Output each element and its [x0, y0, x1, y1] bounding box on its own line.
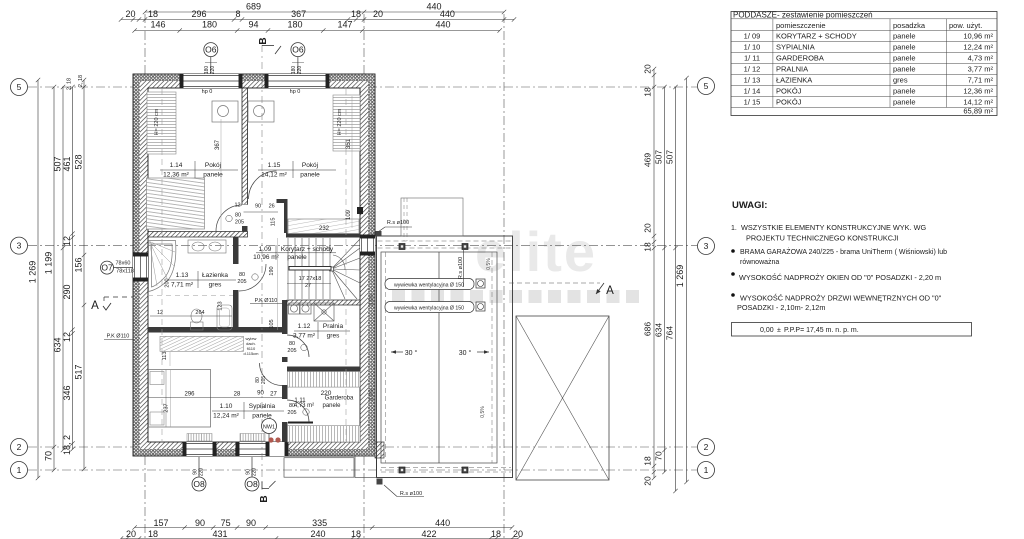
svg-text:528: 528	[74, 154, 84, 169]
bed room 1.14	[147, 178, 205, 229]
svg-text:109: 109	[346, 209, 352, 220]
door arc 1.15	[249, 171, 277, 199]
svg-text:GARDEROBA: GARDEROBA	[776, 53, 824, 62]
axis circle 1 left	[11, 462, 28, 479]
svg-text:12,36 m²: 12,36 m²	[163, 172, 189, 179]
svg-text:1/ 15: 1/ 15	[744, 97, 761, 106]
svg-text:O7: O7	[101, 263, 113, 273]
door arc sypialnia	[260, 363, 283, 386]
svg-text:POSADZKI - 2,10m- 2,12m: POSADZKI - 2,10m- 2,12m	[737, 303, 825, 312]
door arc bathroom	[239, 264, 266, 291]
svg-text:R.s ø100: R.s ø100	[458, 257, 464, 279]
window marker O8 no1	[192, 477, 206, 491]
window O6 room 1.14	[183, 74, 239, 88]
note 4	[731, 293, 735, 297]
vent callout 1	[385, 279, 474, 290]
bathroom shower tray	[217, 305, 232, 330]
svg-text:80: 80	[235, 213, 241, 219]
svg-text:30 °: 30 °	[405, 349, 418, 357]
svg-text:18: 18	[148, 529, 158, 539]
svg-text:634: 634	[654, 323, 664, 337]
svg-text:461: 461	[62, 156, 72, 171]
svg-text:panele: panele	[252, 413, 272, 420]
svg-text:1.09: 1.09	[259, 246, 272, 253]
svg-text:240: 240	[310, 529, 325, 539]
door marker NW1	[262, 419, 277, 434]
svg-text:20: 20	[125, 9, 135, 19]
svg-text:205: 205	[237, 279, 246, 285]
closet room 1.15	[333, 95, 360, 151]
svg-text:764: 764	[665, 326, 675, 340]
svg-text:gres: gres	[209, 282, 222, 289]
svg-text:4,73 m²: 4,73 m²	[294, 403, 314, 409]
bathroom corner bathtub	[149, 241, 176, 292]
svg-text:156: 156	[74, 257, 84, 272]
garderoba rack bottom	[288, 426, 361, 442]
svg-text:78x118: 78x118	[116, 269, 134, 275]
bathroom ceiling dash	[148, 295, 233, 297]
door opening 1.14 in dividing wall	[242, 205, 248, 232]
svg-text:507: 507	[654, 150, 664, 164]
stairs handrail	[289, 267, 331, 271]
svg-text:27: 27	[270, 392, 277, 398]
exterior wall outline	[133, 74, 375, 456]
svg-text:12: 12	[234, 203, 240, 209]
axis circle 2 right	[698, 439, 715, 456]
svg-text:gres: gres	[327, 333, 340, 340]
desk room 1.15	[248, 101, 274, 122]
svg-text:146: 146	[150, 20, 165, 30]
svg-text:3,77 m²: 3,77 m²	[968, 64, 994, 73]
svg-text:7,71 m²: 7,71 m²	[968, 75, 994, 84]
svg-text:14,12 m²: 14,12 m²	[963, 97, 993, 106]
svg-text:80: 80	[239, 272, 245, 278]
dim chain right total	[684, 76, 688, 484]
svg-text:WSZYSTKIE ELEMENTY KONSTRUKCYJ: WSZYSTKIE ELEMENTY KONSTRUKCYJNE WYK. WG	[741, 223, 926, 232]
svg-text:0,5%: 0,5%	[486, 258, 492, 270]
svg-text:232: 232	[319, 226, 330, 232]
window marker O8 no2	[245, 477, 259, 491]
exterior wall right	[368, 74, 375, 456]
svg-text:20: 20	[513, 529, 523, 539]
garage roof ridge	[438, 252, 440, 463]
svg-text:220: 220	[252, 468, 258, 477]
svg-text:POKÓJ: POKÓJ	[776, 86, 802, 95]
interior wall bathroom right	[233, 237, 239, 327]
svg-text:237: 237	[164, 403, 170, 412]
svg-text:pomieszczenie: pomieszczenie	[776, 21, 826, 30]
svg-text:18: 18	[643, 87, 653, 97]
svg-text:689: 689	[246, 2, 261, 12]
washer dryer pralnia	[289, 303, 312, 314]
door opening bathroom	[233, 264, 240, 290]
dim chain left inner	[82, 78, 86, 471]
svg-text:1/ 11: 1/ 11	[744, 53, 760, 62]
svg-text:17 27x18: 17 27x18	[299, 276, 322, 282]
interior wall pralnia top	[287, 300, 360, 305]
svg-text:panele: panele	[287, 254, 307, 261]
svg-text:440: 440	[435, 518, 450, 528]
axis circle 3 right	[698, 238, 715, 255]
dim chain top row 1	[143, 10, 506, 14]
axis circle 1 right	[698, 462, 715, 479]
svg-text:WYSOKOŚĆ NADPROŻY OKIEN OD "0": WYSOKOŚĆ NADPROŻY OKIEN OD "0" POSADZKI …	[739, 273, 941, 282]
svg-text:Sypialnia: Sypialnia	[249, 403, 276, 410]
svg-text:367: 367	[291, 9, 306, 19]
svg-text:1: 1	[17, 465, 22, 475]
svg-text:440: 440	[440, 9, 455, 19]
svg-text:264: 264	[195, 310, 204, 316]
svg-text:113: 113	[162, 352, 168, 361]
svg-text:P.P.P= 17,45 m. n. p. m.: P.P.P= 17,45 m. n. p. m.	[784, 327, 859, 334]
svg-text:18: 18	[491, 529, 501, 539]
dim chain top row 2	[119, 17, 516, 21]
svg-text:12,24 m²: 12,24 m²	[963, 42, 993, 51]
svg-text:panele: panele	[203, 172, 223, 179]
svg-text:20: 20	[643, 223, 653, 233]
svg-text:5: 5	[17, 82, 22, 92]
bed sypialnia	[149, 370, 211, 428]
svg-text:296: 296	[184, 392, 195, 398]
svg-text:296: 296	[191, 9, 206, 19]
window O6 room 1.15	[268, 74, 326, 88]
sypialnia dims row	[148, 397, 282, 399]
garage hidden beam dashes top	[378, 240, 512, 242]
svg-text:335: 335	[312, 518, 327, 528]
svg-text:12: 12	[62, 236, 72, 246]
svg-text:507: 507	[53, 156, 63, 171]
svg-text:12: 12	[62, 332, 72, 342]
svg-text:1/ 10: 1/ 10	[744, 42, 761, 51]
axis line 1 horizontal	[28, 469, 697, 471]
svg-text:3: 3	[17, 241, 22, 251]
axis circle 5 left	[11, 79, 28, 96]
svg-text:351: 351	[346, 138, 352, 149]
stairs landing line	[287, 283, 331, 285]
svg-text:panele: panele	[893, 53, 916, 62]
section line B-B	[261, 45, 263, 490]
dim 190 corridor	[277, 238, 279, 330]
axis circle 5 right	[698, 78, 715, 95]
svg-text:Pokój: Pokój	[302, 162, 318, 169]
interior wall sypialnia / corridor+garderoba vertical	[282, 300, 288, 442]
svg-text:431: 431	[212, 529, 227, 539]
corridor jog wall top	[277, 199, 288, 203]
window jamb blocks	[180, 74, 184, 88]
dim chain right 507/764	[673, 85, 677, 493]
svg-text:440: 440	[435, 20, 450, 30]
door opening garderoba	[282, 399, 289, 422]
svg-text:26: 26	[269, 204, 275, 210]
vent callout 2	[385, 302, 474, 313]
svg-text:3,77 m²: 3,77 m²	[293, 333, 316, 340]
dim chain bottom row 2	[119, 536, 520, 539]
svg-text:panele: panele	[893, 31, 916, 40]
door arc pralnia	[287, 335, 309, 357]
svg-text:2: 2	[17, 442, 22, 452]
door knobs	[268, 437, 273, 442]
svg-text:3: 3	[704, 241, 709, 251]
closet room 1.14	[147, 92, 176, 154]
svg-text:1/ 12: 1/ 12	[744, 64, 761, 73]
svg-text:30 °: 30 °	[459, 349, 472, 357]
closet sypialnia	[160, 336, 244, 351]
svg-text:ŁAZIENKA: ŁAZIENKA	[776, 75, 812, 84]
svg-text:18: 18	[643, 456, 653, 466]
svg-text:1: 1	[704, 465, 709, 475]
svg-text:P.K Ø110: P.K Ø110	[255, 298, 278, 304]
svg-text:BRAMA GARAŻOWA 240/225 - brama: BRAMA GARAŻOWA 240/225 - brama UniTherm …	[740, 247, 947, 256]
door opening pralnia	[282, 334, 289, 357]
dim chain top row 3	[132, 28, 502, 32]
stairs walk arc	[333, 255, 345, 270]
garderoba door leaf	[288, 422, 313, 424]
dim chain left 1199	[52, 85, 56, 472]
bathroom toilet	[191, 322, 204, 330]
svg-text:O8: O8	[193, 479, 205, 489]
svg-text:20: 20	[373, 9, 383, 19]
svg-text:70: 70	[44, 451, 54, 461]
svg-text:75: 75	[221, 518, 231, 528]
level box	[732, 323, 972, 337]
svg-text:190: 190	[269, 266, 275, 275]
svg-text:pow. użyt.: pow. użyt.	[949, 21, 982, 30]
window marker O7	[101, 261, 114, 274]
svg-text:205: 205	[287, 348, 296, 354]
dim chain left 1269	[36, 78, 40, 480]
svg-text:wywiewka wentylacyjna Ø 150: wywiewka wentylacyjna Ø 150	[394, 306, 464, 312]
svg-text:4,73 m²: 4,73 m²	[968, 53, 994, 62]
svg-text:18: 18	[148, 9, 158, 19]
bottom right wall stub	[375, 442, 384, 458]
radiator comb window O8 no2	[240, 434, 265, 442]
svg-text:panele: panele	[893, 64, 916, 73]
bed room 1.15	[288, 219, 359, 234]
svg-text:1.15: 1.15	[268, 162, 281, 169]
axis line vertical left wall	[144, 14, 146, 539]
axis line vertical garage right	[503, 14, 505, 539]
svg-text:0,00: 0,00	[760, 327, 774, 334]
svg-text:180: 180	[287, 20, 302, 30]
svg-text:80: 80	[289, 403, 295, 409]
svg-text:Garderoba: Garderoba	[325, 396, 354, 402]
dim chain right 507/634/70	[662, 85, 666, 474]
stairs treads	[288, 238, 330, 299]
interior wall 1.15 / stairwell	[286, 233, 360, 238]
garage vent squares	[399, 244, 468, 474]
radiator comb window O8 no1	[187, 434, 212, 442]
svg-text:220: 220	[199, 468, 205, 477]
svg-text:posadzka: posadzka	[893, 21, 926, 30]
interior wall room 1.14 / bathroom	[148, 232, 248, 238]
door opening sypialnia	[282, 362, 289, 385]
shower pralnia	[314, 303, 334, 321]
door arc 1.14	[216, 205, 242, 231]
svg-text:90: 90	[255, 204, 261, 210]
svg-text:10,96 m²: 10,96 m²	[963, 31, 993, 40]
svg-text:1.14: 1.14	[170, 162, 183, 169]
svg-text:686: 686	[643, 322, 653, 336]
svg-text:346: 346	[62, 385, 72, 400]
svg-text:1.10: 1.10	[220, 403, 233, 410]
svg-text:panele: panele	[893, 86, 916, 95]
svg-text:90: 90	[246, 518, 256, 528]
room table	[731, 12, 997, 116]
svg-text:94: 94	[248, 20, 258, 30]
svg-text:10,96 m²: 10,96 m²	[253, 254, 279, 261]
svg-text:517: 517	[74, 364, 84, 379]
svg-text:80: 80	[289, 341, 295, 347]
svg-text:SYPIALNIA: SYPIALNIA	[776, 42, 815, 51]
note 2	[731, 249, 735, 253]
svg-text:R.s ø100: R.s ø100	[387, 220, 409, 226]
svg-text:d.115cm: d.115cm	[243, 351, 259, 356]
svg-text:gres: gres	[893, 75, 908, 84]
axis line vertical right wall	[363, 14, 365, 539]
svg-text:WYSOKOŚĆ NADPROŻY DRZWI WEWNĘT: WYSOKOŚĆ NADPROŻY DRZWI WEWNĘTRZNYCH OD …	[740, 294, 942, 303]
svg-text:90: 90	[195, 518, 205, 528]
garderoba rack top	[288, 372, 361, 388]
svg-text:1 199: 1 199	[44, 252, 54, 275]
svg-text:hp 0: hp 0	[202, 89, 213, 95]
svg-text:18: 18	[351, 529, 361, 539]
svg-text:12,36 m²: 12,36 m²	[963, 86, 993, 95]
svg-text:105: 105	[269, 319, 275, 328]
svg-text:PROJEKTU TECHNICZNEGO KONSTRUK: PROJEKTU TECHNICZNEGO KONSTRUKCJI	[746, 234, 899, 243]
porch roof outline above garage	[401, 198, 463, 236]
window O8 sypialnia 1	[186, 442, 213, 456]
svg-text:147: 147	[337, 20, 352, 30]
svg-text:UWAGI:: UWAGI:	[732, 200, 767, 211]
svg-text:Pralnia: Pralnia	[323, 323, 344, 330]
axis circle 2 left	[11, 439, 28, 456]
terrace crossed rectangle	[516, 316, 609, 480]
svg-text:PODDASZE- zestawienie pomieszc: PODDASZE- zestawienie pomieszczeń	[733, 10, 873, 19]
svg-text:NW1: NW1	[263, 425, 275, 431]
svg-text:wywiewka wentylacyjna Ø 150: wywiewka wentylacyjna Ø 150	[394, 283, 464, 289]
garage hidden beam dashes bottom	[381, 467, 511, 469]
window O8 sypialnia 2	[239, 442, 266, 456]
svg-text:12,24 m²: 12,24 m²	[213, 413, 239, 420]
dim chain left detail	[70, 85, 74, 452]
axis circle 3 left	[11, 237, 28, 254]
svg-text:18: 18	[351, 9, 361, 19]
svg-text:1/ 13: 1/ 13	[744, 75, 761, 84]
svg-text:0,5%: 0,5%	[369, 294, 375, 306]
svg-text:5: 5	[704, 81, 709, 91]
svg-text:469: 469	[643, 153, 653, 167]
svg-text:18: 18	[643, 242, 653, 252]
svg-text:±: ±	[777, 327, 781, 334]
dim chain left 507/634	[61, 85, 65, 452]
exterior wall top	[133, 74, 375, 81]
svg-text:205: 205	[287, 410, 296, 416]
svg-text:1 269: 1 269	[28, 261, 38, 284]
garage hidden beam dashes left/right	[380, 252, 382, 463]
svg-text:65,89 m²: 65,89 m²	[963, 106, 993, 115]
svg-text:220: 220	[297, 66, 303, 75]
garage roof outer edge	[377, 236, 513, 478]
exterior wall left	[133, 74, 140, 456]
svg-text:Łazienka: Łazienka	[202, 272, 228, 279]
svg-text:180: 180	[202, 20, 217, 30]
svg-text:O6: O6	[292, 45, 304, 55]
svg-text:367: 367	[215, 139, 221, 150]
svg-text:507: 507	[665, 150, 675, 164]
svg-text:90: 90	[257, 391, 264, 397]
svg-text:290: 290	[62, 284, 72, 299]
svg-text:A: A	[91, 300, 99, 312]
window marker O6 no2	[291, 43, 305, 57]
svg-text:1.: 1.	[731, 225, 737, 232]
window O7 left wall bathroom	[133, 256, 148, 278]
svg-text:634: 634	[53, 337, 63, 352]
svg-text:hp 0: hp 0	[290, 89, 301, 95]
bathroom washbasins	[188, 240, 226, 253]
window right wall corridor	[360, 238, 375, 252]
axis line 5 horizontal	[28, 86, 697, 88]
svg-text:2: 2	[704, 442, 709, 452]
interior wall bathroom / sypialnia	[148, 327, 287, 333]
svg-text:R.s ø100: R.s ø100	[400, 491, 422, 497]
svg-text:Pokój: Pokój	[205, 162, 221, 169]
door NW1 opening	[267, 442, 285, 456]
svg-text:POKÓJ: POKÓJ	[776, 97, 802, 106]
svg-text:123: 123	[218, 301, 224, 310]
svg-text:1.12: 1.12	[298, 323, 311, 330]
stairs winder radiating treads	[330, 239, 361, 299]
svg-text:7,71 m²: 7,71 m²	[171, 282, 194, 289]
svg-text:O6: O6	[205, 45, 217, 55]
svg-text:18, 2: 18, 2	[62, 435, 72, 455]
interior wall dividing room 1.14 / 1.15	[242, 88, 248, 205]
svg-text:O8: O8	[246, 479, 258, 489]
svg-text:B: B	[258, 37, 269, 44]
svg-text:PRALNIA: PRALNIA	[776, 64, 808, 73]
roof slope line left	[161, 89, 163, 441]
wall junction block right	[357, 207, 363, 214]
svg-text:115: 115	[271, 218, 277, 227]
svg-text:20: 20	[643, 476, 653, 486]
svg-text:1/ 09: 1/ 09	[744, 31, 761, 40]
axis line 2 horizontal	[28, 446, 697, 448]
svg-text:205: 205	[261, 376, 267, 385]
desk room 1.14	[212, 101, 238, 122]
svg-text:H= 220 cm: H= 220 cm	[337, 108, 343, 135]
porch slab below bottom wall	[284, 458, 354, 478]
dim 351 room 1.15	[351, 96, 353, 228]
svg-text:KORYTARZ + SCHODY: KORYTARZ + SCHODY	[776, 31, 857, 40]
svg-text:70: 70	[654, 451, 664, 461]
garage roof inner edge	[381, 252, 497, 463]
exterior wall bottom	[133, 442, 375, 449]
svg-text:14,12 m²: 14,12 m²	[261, 172, 287, 179]
svg-text:8: 8	[235, 9, 240, 19]
svg-text:20: 20	[643, 64, 653, 74]
svg-text:panele: panele	[322, 403, 341, 409]
svg-text:1.13: 1.13	[176, 272, 189, 279]
svg-text:B: B	[259, 495, 270, 502]
svg-text:20: 20	[126, 529, 136, 539]
svg-text:równoważna: równoważna	[740, 259, 779, 266]
door arc garderoba	[287, 400, 309, 422]
dim 367 room 1.14	[220, 119, 222, 230]
svg-text:panele: panele	[893, 97, 916, 106]
svg-text:A: A	[606, 285, 614, 297]
svg-text:220: 220	[210, 66, 216, 75]
svg-text:205: 205	[235, 220, 244, 226]
roof slope line right	[345, 89, 347, 441]
